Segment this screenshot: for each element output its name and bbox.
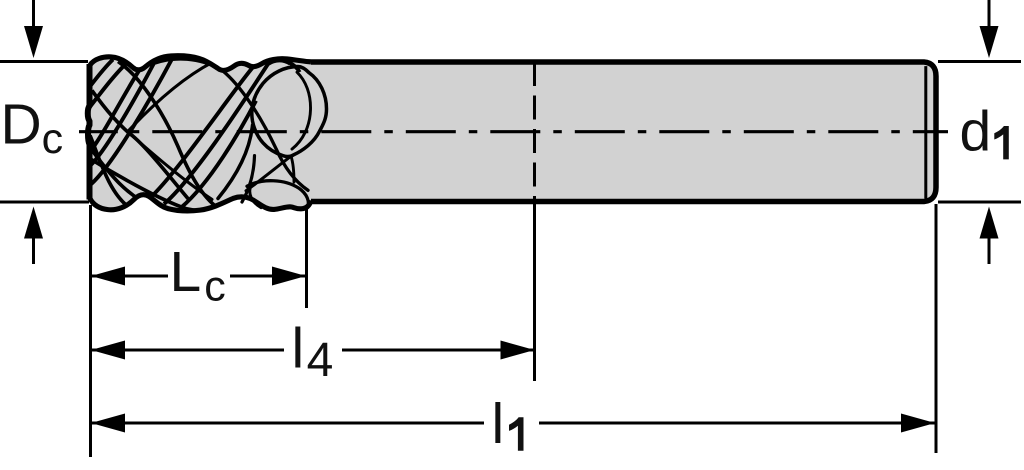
mid lens connector bbox=[246, 156, 291, 191]
top-left extension line bbox=[0, 60, 88, 63]
svg-text:Dc: Dc bbox=[1, 93, 64, 164]
cutter head left face edge bbox=[88, 64, 90, 199]
Lc right extension line bbox=[305, 205, 308, 308]
runout leaf lower top boundary bbox=[247, 181, 308, 208]
end tooth point rays bbox=[128, 63, 213, 200]
hidden feature dashed line bbox=[533, 62, 536, 202]
Lc dimension line with arrows bbox=[91, 267, 306, 286]
runout leaf lower left end bbox=[250, 185, 261, 207]
l1 right extension line bbox=[935, 204, 938, 453]
flute lines clipped to head bbox=[90, 58, 300, 211]
back flute helix lines (descending) bbox=[90, 61, 244, 211]
last back helix into runout bbox=[222, 70, 308, 190]
Dc bottom arrow (up) bbox=[24, 207, 43, 265]
svg-text:l: l bbox=[492, 392, 505, 456]
svg-text:l4: l4 bbox=[292, 317, 334, 388]
flute land into leaf left bbox=[218, 125, 253, 198]
top-right extension line bbox=[938, 60, 1021, 63]
svg-text:Lc: Lc bbox=[170, 240, 226, 311]
shank body bbox=[300, 62, 936, 202]
l1 dimension line with arrows bbox=[91, 414, 935, 433]
d1 top arrow (down) bbox=[980, 0, 999, 58]
bottom-right extension line bbox=[938, 201, 1021, 204]
front flute helix lines (rising) bbox=[90, 58, 300, 208]
extension line below dashed feature bbox=[533, 202, 536, 382]
bottom-left extension line bbox=[0, 201, 89, 204]
upper leaf tip join down bbox=[291, 156, 294, 182]
d1 bottom arrow (up) bbox=[980, 207, 999, 265]
runout leaf inner line bbox=[292, 72, 311, 149]
land line into leaf lower-left bbox=[242, 156, 255, 202]
shank end inner chamfer line bbox=[924, 66, 927, 198]
l4 dimension line with arrows bbox=[91, 341, 535, 360]
left vertical extension line bbox=[89, 205, 92, 457]
runout leaf outline bbox=[252, 67, 327, 157]
Dc top arrow (down) bbox=[24, 0, 43, 58]
center line (dash-dot axis) bbox=[79, 130, 948, 133]
svg-text:d: d bbox=[960, 100, 992, 164]
